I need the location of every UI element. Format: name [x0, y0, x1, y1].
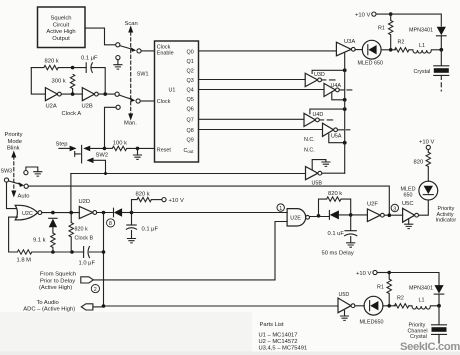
svg-text:Q2: Q2 [187, 69, 194, 75]
svg-text:SeekIC.com: SeekIC.com [400, 341, 460, 353]
svg-text:SW1: SW1 [137, 72, 149, 78]
svg-text:U3D: U3D [314, 72, 325, 78]
svg-text:Auto: Auto [18, 194, 30, 200]
diode to +10V pull / 0.1uF [114, 191, 288, 243]
inverter U4D [304, 107, 347, 126]
SW3 common [4, 178, 8, 182]
SW1 lower pole D [136, 99, 140, 103]
svg-text:Prior to Delay: Prior to Delay [40, 278, 75, 284]
svg-text:R2: R2 [398, 40, 405, 46]
svg-text:820: 820 [414, 159, 424, 165]
svg-text:100 k: 100 k [113, 140, 127, 146]
LED MLED650 priority activity [401, 139, 457, 223]
SW1 upper contact A [116, 43, 120, 47]
node 300k top [71, 66, 75, 70]
svg-text:1: 1 [279, 206, 282, 212]
svg-text:MPN3401: MPN3401 [409, 28, 433, 34]
svg-text:Crystal: Crystal [414, 69, 431, 75]
svg-text:N.C.: N.C. [304, 137, 315, 143]
inverter U2F [367, 201, 403, 221]
vertical from U2D out down [103, 213, 105, 307]
LED MLED 650 scan [358, 40, 396, 66]
buffer U5D [338, 292, 364, 320]
svg-text:Active High: Active High [46, 29, 75, 35]
wire Q7 [199, 118, 305, 120]
U2C lower input from 1.8M [9, 217, 18, 252]
parts list [259, 322, 308, 352]
svg-text:Clock B: Clock B [75, 236, 94, 242]
svg-text:Mode: Mode [8, 139, 23, 145]
svg-text:ADC – (Active High): ADC – (Active High) [23, 307, 75, 313]
SW3 arm [8, 181, 20, 184]
svg-text:U2B: U2B [82, 104, 93, 110]
wire clock B bottom rail [32, 251, 104, 253]
svg-text:+10 V: +10 V [419, 139, 434, 145]
svg-text:MPN3401: MPN3401 [409, 286, 433, 292]
svg-text:Q9: Q9 [187, 138, 194, 144]
svg-text:U2C: U2C [22, 211, 33, 217]
svg-text:Crystal: Crystal [410, 334, 427, 340]
wire Q4 [199, 89, 325, 91]
svg-text:Clock: Clock [157, 99, 171, 105]
SW3 auto contact [24, 184, 28, 188]
+10V terminal priority LED [426, 145, 430, 149]
svg-text:Enable: Enable [157, 51, 174, 57]
switch SW3 priority mode [1, 132, 390, 213]
svg-text:SW2: SW2 [96, 153, 109, 159]
diode (cathode left) [328, 211, 330, 220]
inverter U2A [45, 88, 57, 101]
vertical bus [344, 53, 346, 174]
svg-text:N.C.: N.C. [304, 148, 315, 154]
transistor diode MPN3401 priority [389, 273, 444, 306]
svg-text:0.1 uF: 0.1 uF [328, 231, 345, 237]
svg-text:Q3: Q3 [187, 78, 194, 84]
svg-text:1.0 μF: 1.0 μF [79, 261, 96, 267]
U4D strobe elbow to bus [310, 109, 345, 114]
svg-text:820 k: 820 k [75, 227, 88, 233]
node 1 [277, 204, 284, 212]
svg-text:820 k: 820 k [45, 59, 59, 65]
ground at reset [137, 148, 139, 155]
node 9.1k bottom [51, 250, 55, 254]
U2E lower input from squelch line [275, 222, 287, 280]
svg-text:Priority: Priority [5, 132, 23, 138]
svg-text:Clock A: Clock A [62, 111, 82, 117]
buffer U5C [402, 200, 428, 229]
svg-text:Clock: Clock [157, 44, 171, 50]
NOR gate U2C [9, 205, 104, 263]
svg-text:U3,4,5 – MC75491: U3,4,5 – MC75491 [259, 346, 308, 352]
svg-text:Blink: Blink [7, 146, 20, 152]
svg-text:50 ms Delay: 50 ms Delay [322, 250, 354, 256]
capacitor 0.1uF mid [131, 213, 133, 226]
svg-text:U1: U1 [169, 87, 176, 93]
svg-text:U5A: U5A [331, 134, 342, 140]
svg-text:1.8 M: 1.8 M [17, 258, 32, 264]
ground U5D [344, 311, 346, 316]
transistor diode MPN3401 scan [391, 14, 446, 50]
svg-text:U2D: U2D [79, 199, 91, 205]
wire squelch to SW1 upper [85, 28, 116, 45]
inverter U5B [306, 160, 345, 187]
svg-text:Parts List: Parts List [260, 322, 285, 328]
wire Q0 [199, 50, 337, 52]
resistor 820k Clock B [69, 211, 96, 267]
inverter U2D [79, 199, 115, 306]
crystal priority channel [408, 306, 447, 343]
svg-text:+10 V: +10 V [169, 198, 184, 204]
svg-text:2: 2 [94, 287, 97, 293]
svg-text:U5D: U5D [339, 292, 350, 298]
clock oscillator U2A/U2B [31, 56, 115, 118]
inductor L1 scan [413, 43, 443, 53]
node clock A out [98, 93, 115, 95]
wire SW3 common to U2C input [7, 182, 17, 209]
svg-text:Squelch: Squelch [51, 16, 72, 22]
SW3 blink contact grounded [24, 171, 28, 175]
svg-text:R2: R2 [397, 295, 404, 301]
svg-text:Scan: Scan [125, 21, 138, 27]
svg-text:Q6: Q6 [187, 107, 194, 113]
svg-text:U5B: U5B [312, 180, 323, 186]
node 8 [107, 219, 115, 227]
crystal scan channel [414, 50, 449, 91]
svg-text:Q1: Q1 [187, 59, 194, 65]
U5A elbow to bus [329, 134, 345, 143]
svg-text:Cout: Cout [184, 148, 195, 154]
node 3 [391, 204, 398, 212]
diode D + resistor 9.1k branch [33, 211, 79, 252]
svg-text:L1: L1 [419, 298, 425, 304]
resistor R2 scan [395, 40, 413, 53]
wire Q8 [199, 129, 323, 131]
svg-text:Man.: Man. [124, 121, 137, 127]
svg-text:(Active High): (Active High) [39, 285, 72, 291]
0.1uF delay cap [350, 215, 352, 230]
svg-text:Step: Step [56, 142, 68, 148]
svg-text:9.1 k: 9.1 k [33, 238, 46, 244]
U4A elbow to bus [332, 93, 345, 100]
flag: from squelch prior to delay [39, 272, 275, 293]
buffer U3A [336, 39, 362, 56]
counter U1 MC14017 [155, 41, 199, 162]
svg-text:U2F: U2F [367, 201, 378, 207]
svg-text:U3A: U3A [344, 39, 355, 45]
svg-text:0.1 μF: 0.1 μF [81, 56, 98, 62]
svg-text:Q5: Q5 [187, 97, 194, 103]
NAND gate U2E [275, 209, 310, 280]
inverter U3D [305, 68, 346, 86]
pushbutton SW2 [56, 142, 109, 174]
long line SW2 to U5B [71, 172, 306, 213]
wire U2C out to U2D in [42, 212, 80, 214]
U3D strobe elbow to bus [312, 70, 345, 73]
main line to U2E [132, 212, 288, 214]
svg-text:L1: L1 [419, 43, 425, 49]
svg-text:820 k: 820 k [136, 191, 150, 197]
node 820k bottom [70, 250, 74, 254]
svg-text:Indicator: Indicator [436, 218, 457, 224]
ground delay cap [350, 237, 352, 243]
diode D1 clamp [49, 217, 57, 219]
ground 0.1uF mid [131, 231, 133, 239]
svg-text:+10 V: +10 V [355, 13, 370, 19]
SW1 lower contact C [115, 92, 119, 96]
svg-text:Output: Output [52, 36, 70, 42]
svg-text:U1 – MC14017: U1 – MC14017 [259, 333, 298, 339]
svg-text:U2A: U2A [46, 104, 57, 110]
svg-text:Q0: Q0 [187, 49, 194, 55]
svg-text:To Audio: To Audio [37, 300, 59, 306]
svg-text:Q7: Q7 [187, 118, 194, 124]
svg-text:0.1 μF: 0.1 μF [142, 226, 159, 232]
ground U5C [408, 219, 410, 225]
inverter U2B [61, 93, 82, 95]
svg-text:U2 – MC14572: U2 – MC14572 [259, 339, 298, 345]
50 ms delay: diode, 820k bypass, 0.1uF [310, 191, 368, 256]
flag: to audio AGC [23, 300, 338, 313]
SW1 upper pole B [137, 49, 141, 53]
resistor R2 priority [394, 295, 412, 308]
svg-text:MLED650: MLED650 [360, 320, 384, 326]
inductor L1 priority [412, 298, 441, 310]
U5B ground loop [312, 160, 326, 170]
LED MLED650 priority channel [360, 296, 396, 325]
inverter U4A [324, 83, 352, 102]
SW1 manual contact [116, 105, 120, 109]
+10V priority [356, 270, 389, 277]
resistor R1 scan [378, 12, 393, 50]
switch SW1 (ganged, dashed link) [105, 21, 155, 148]
svg-text:U2E: U2E [290, 216, 301, 222]
svg-text:650: 650 [404, 192, 413, 198]
svg-text:Q8: Q8 [187, 128, 194, 134]
inverter U5A [323, 123, 350, 144]
svg-text:3: 3 [393, 206, 396, 212]
node 2 [91, 285, 99, 293]
svg-text:U4D: U4D [313, 112, 324, 118]
svg-text:+10 V: +10 V [356, 271, 371, 277]
svg-text:Q4: Q4 [187, 88, 194, 94]
+10V scan [355, 12, 391, 19]
node 100k/reset junction [136, 147, 140, 151]
svg-text:820 k: 820 k [328, 191, 342, 197]
svg-text:MLED 650: MLED 650 [358, 61, 383, 67]
svg-text:300 k: 300 k [52, 79, 66, 85]
svg-text:From Squelch: From Squelch [40, 272, 76, 278]
resistor 100k / reset [105, 140, 155, 159]
wire SW3 to node 3 column [28, 186, 389, 213]
svg-text:R1: R1 [377, 284, 384, 290]
wire Q3 [199, 79, 306, 81]
svg-text:Reset: Reset [157, 147, 172, 153]
svg-text:Circuit: Circuit [53, 22, 70, 28]
squelch box [38, 7, 86, 48]
resistor R1 priority [377, 271, 391, 306]
svg-text:R1: R1 [378, 26, 385, 32]
svg-text:U5C: U5C [402, 201, 414, 207]
mid ground with circle [116, 56, 120, 60]
svg-text:8: 8 [109, 221, 112, 227]
resistor 820 to +10V [427, 167, 429, 182]
svg-text:SW3: SW3 [1, 168, 13, 174]
